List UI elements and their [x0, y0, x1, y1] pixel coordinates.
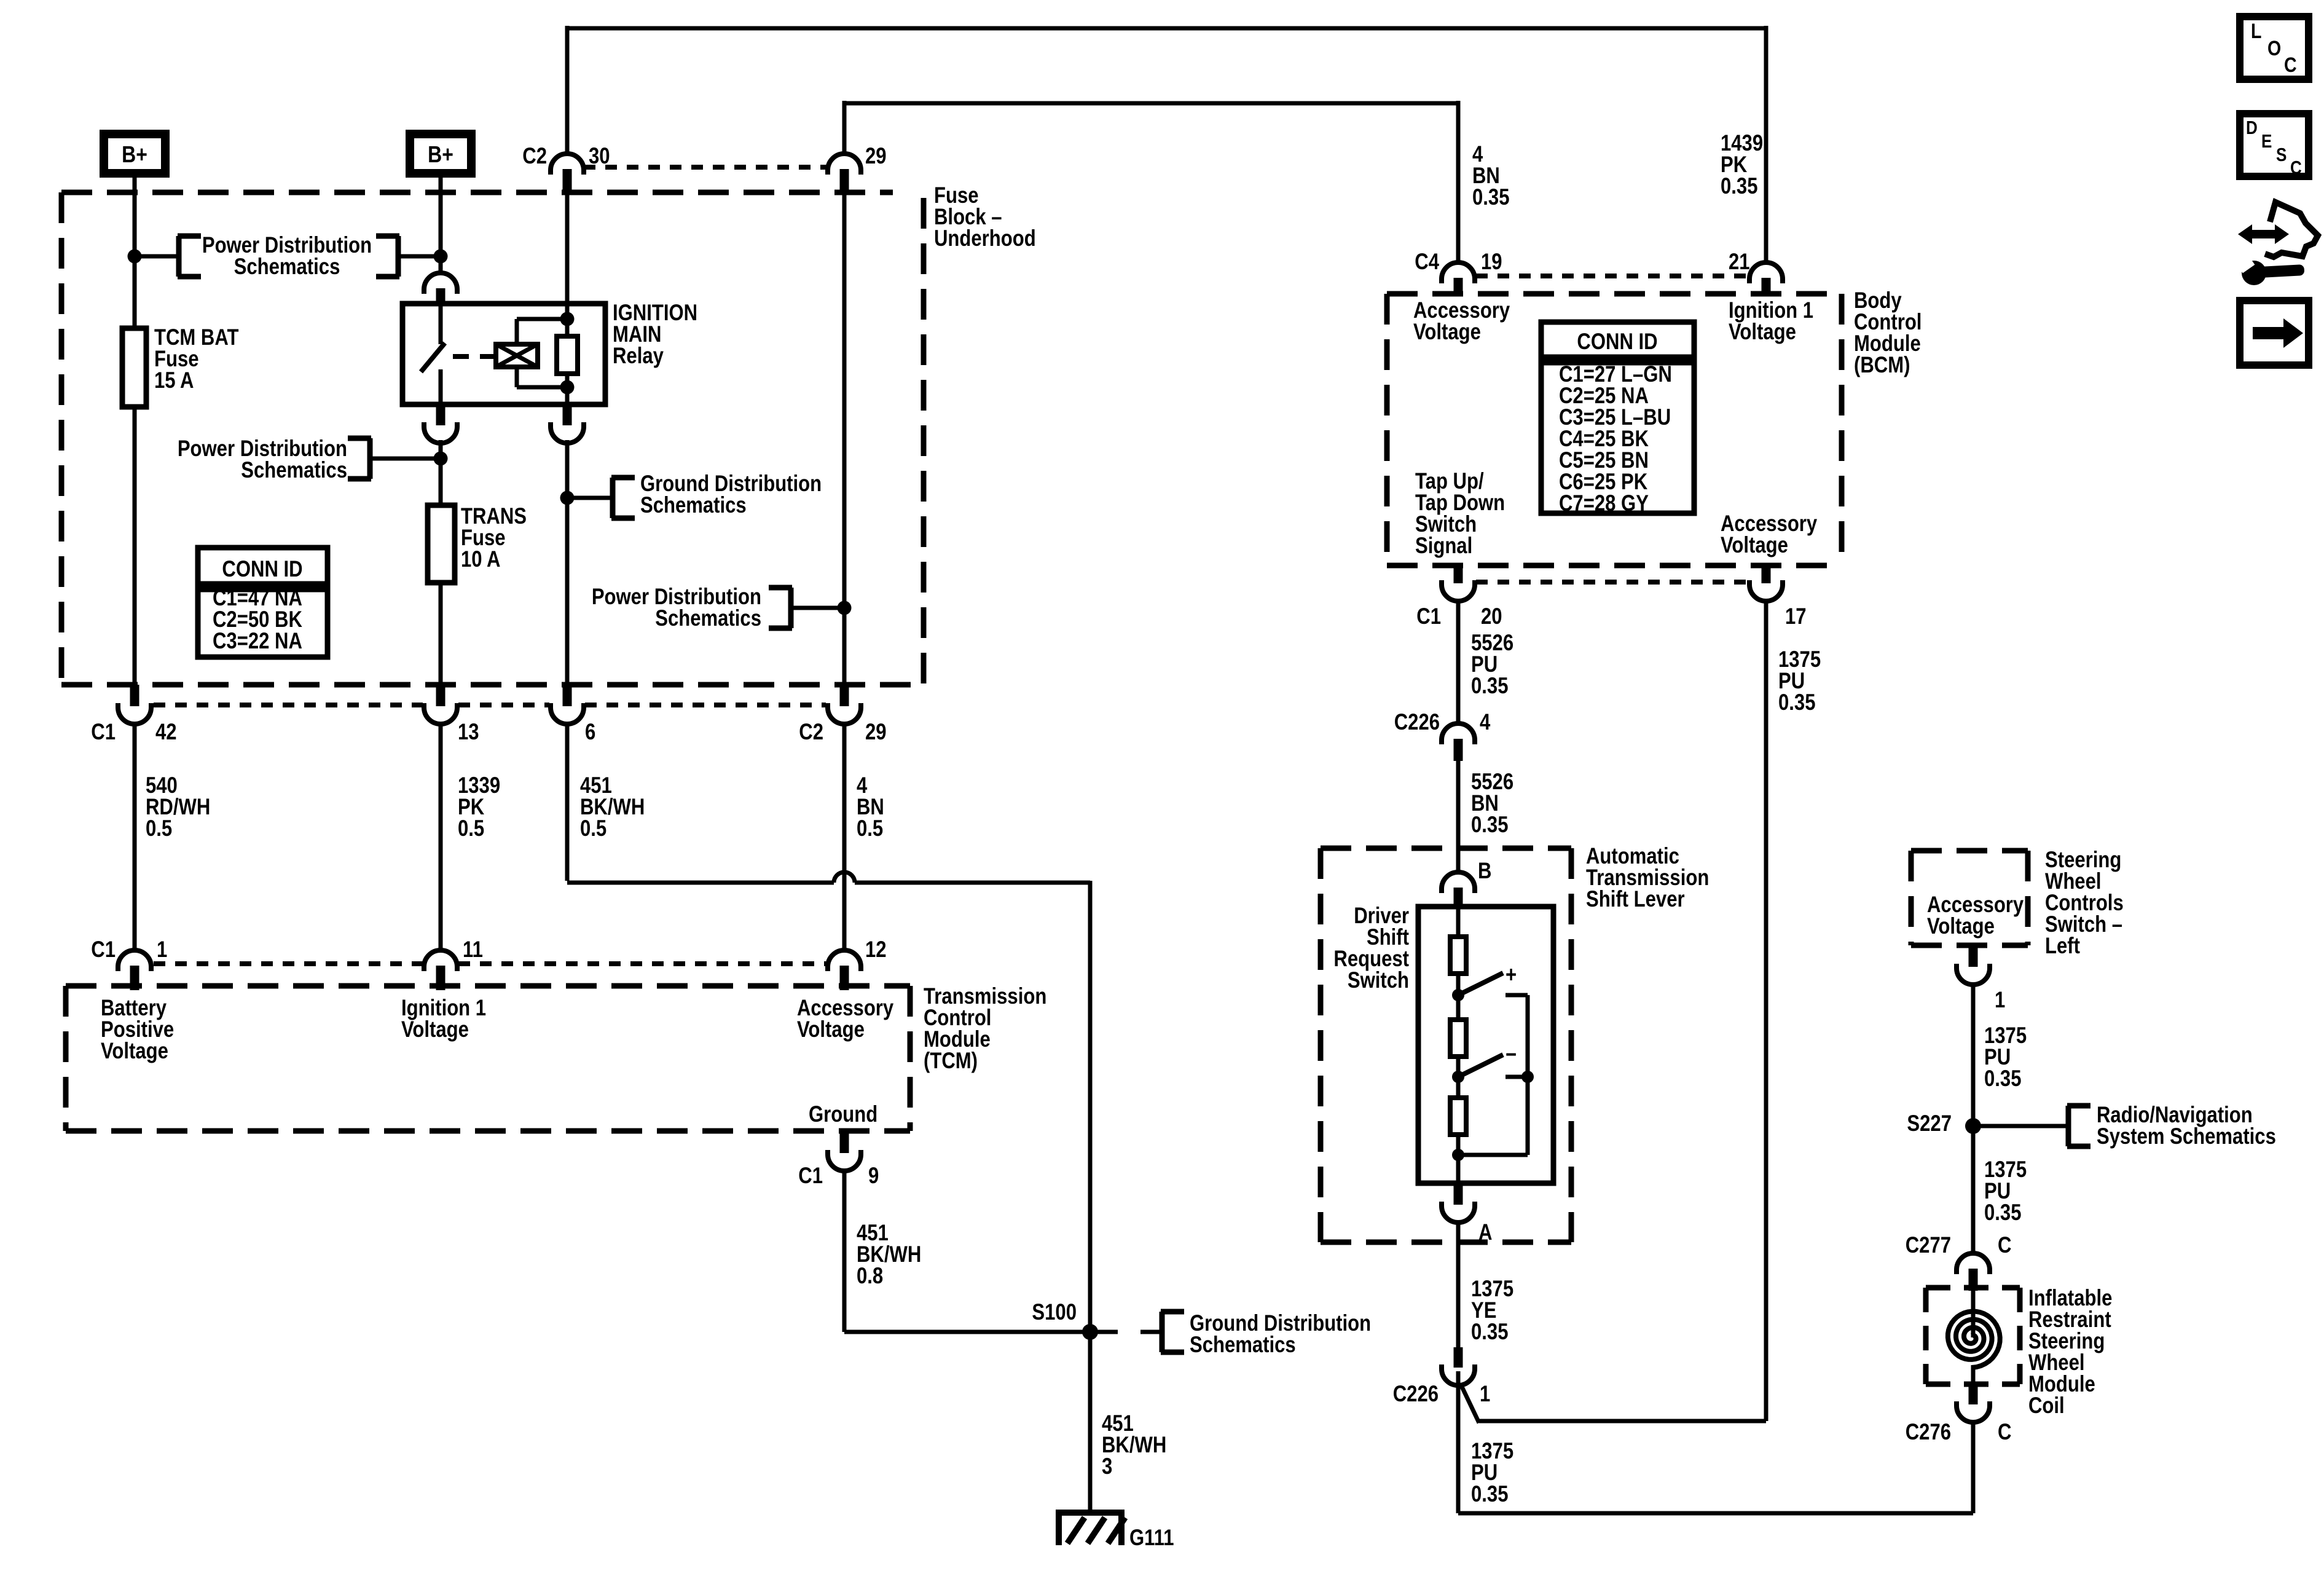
power distribution schematics reference (left mid)	[178, 436, 441, 483]
svg-text:C1: C1	[1416, 604, 1441, 629]
junction S227	[1907, 1111, 1981, 1136]
wire: C226-1 down to coil C276	[1458, 1371, 1973, 1513]
junction dot coil top	[560, 312, 575, 326]
wire label 1375 YE 0.35	[1471, 1277, 1513, 1345]
wire: B+ 1 to TCM BAT fuse	[133, 178, 137, 328]
fuse TRANS 10 A	[428, 504, 527, 583]
svg-text:C: C	[2284, 53, 2297, 77]
junction dot on B+1 wire	[128, 250, 142, 264]
wire label 5526 BN 0.35	[1471, 770, 1513, 838]
svg-text:S: S	[2276, 144, 2287, 166]
connector mate line (BCM top)	[1476, 274, 1748, 278]
wire: 29 to connector C2-29	[842, 192, 847, 686]
connector TCM C1-9	[798, 1131, 879, 1189]
connector 29 (fuse block top)	[828, 144, 887, 194]
wire: TCM BAT fuse to connector C1-42	[133, 407, 137, 686]
svg-text:29: 29	[865, 144, 887, 169]
svg-text:Coil: Coil	[2028, 1393, 2065, 1419]
radio/navigation system schematics reference	[1973, 1103, 2276, 1149]
svg-text:0.35: 0.35	[1471, 1482, 1508, 1507]
svg-text:C4: C4	[1415, 250, 1439, 275]
svg-text:−: −	[1505, 1042, 1517, 1068]
svg-text:C277: C277	[1906, 1233, 1951, 1258]
connector TCM 12	[828, 937, 887, 990]
wire label 1375 PU 0.35 (below C226-1)	[1471, 1439, 1513, 1507]
svg-text:O: O	[2267, 37, 2281, 60]
svg-text:Shift Lever: Shift Lever	[1586, 887, 1685, 912]
svg-text:Schematics: Schematics	[640, 493, 747, 518]
shift lever label	[1586, 844, 1709, 912]
ground distribution schematics reference (S100)	[1090, 1311, 1371, 1358]
relay box IGNITION MAIN	[402, 304, 605, 404]
svg-text:C7=28 GY: C7=28 GY	[1559, 491, 1649, 516]
svg-text:0.35: 0.35	[1471, 1320, 1508, 1345]
svg-text:C2: C2	[522, 144, 547, 169]
wire: 42 to TCM C1-1	[133, 723, 137, 951]
connector shift lever A	[1442, 1183, 1492, 1245]
svg-text:4: 4	[1480, 710, 1490, 735]
svg-text:0.5: 0.5	[146, 816, 172, 841]
wire: 13 to TCM 11	[439, 723, 443, 951]
connector C2-29	[799, 685, 886, 745]
junction S100	[1032, 1300, 1098, 1340]
wire label 1439 PK 0.35	[1721, 131, 1763, 199]
wire label 4 BN 0.35	[1472, 142, 1509, 210]
B+ terminal 1	[104, 134, 165, 173]
svg-text:Voltage: Voltage	[1413, 320, 1481, 345]
switch arm minus	[1458, 1042, 1517, 1077]
svg-text:C2: C2	[799, 720, 823, 745]
svg-text:C3=22 NA: C3=22 NA	[213, 629, 302, 654]
svg-text:(TCM): (TCM)	[924, 1049, 978, 1074]
wire R1 to plus node	[1456, 974, 1461, 995]
svg-text:17: 17	[1785, 604, 1807, 629]
wire R3 to bottom node	[1456, 1135, 1461, 1155]
wire: fuse block C2-30 to BCM pin 21 (top net)	[567, 26, 1766, 264]
wire minus node to R3	[1456, 1077, 1461, 1098]
svg-text:11: 11	[463, 937, 483, 963]
svg-text:G111: G111	[1129, 1526, 1174, 1551]
clockspring spiral	[1948, 1291, 2000, 1385]
svg-text:A: A	[1478, 1220, 1492, 1245]
svg-text:CONN ID: CONN ID	[1577, 329, 1657, 355]
junction dot bottom node	[1452, 1149, 1464, 1161]
ground distribution schematics reference (relay)	[567, 471, 822, 518]
svg-text:Voltage: Voltage	[1927, 914, 1995, 939]
wire: BCM C1-20 to C226-4	[1456, 600, 1461, 725]
wire: TRANS fuse to connector 13	[439, 583, 443, 686]
icon next-page arrow box	[2240, 301, 2309, 365]
connector 13	[424, 685, 479, 745]
svg-text:Voltage: Voltage	[1721, 533, 1788, 558]
svg-text:0.35: 0.35	[1471, 674, 1508, 699]
junction dot power dist 3	[838, 601, 852, 615]
svg-text:Switch: Switch	[1348, 968, 1409, 993]
svg-text:0.35: 0.35	[1984, 1200, 2021, 1226]
driver shift request switch box	[1418, 907, 1553, 1183]
CONN ID table (fuse block)	[198, 548, 328, 657]
wire label 451 BK/WH 3	[1102, 1411, 1166, 1479]
fuse block - underhood dashed box	[61, 192, 924, 685]
resistor R1	[1450, 937, 1466, 974]
wire: B+ 2 to relay	[439, 178, 443, 275]
fuse TCM BAT 15 A	[122, 325, 239, 407]
junction dot coil bottom	[560, 380, 575, 395]
power distribution schematics reference (bottom mid)	[592, 585, 844, 631]
connector mate line (fuse bottom)	[154, 703, 826, 707]
wire label 1375 PU 0.35 (below S227)	[1984, 1157, 2027, 1226]
shift lever dashed box	[1321, 848, 1571, 1242]
power distribution schematics reference (top)	[135, 233, 441, 280]
right branch vertical	[1526, 995, 1530, 1155]
svg-text:0.8: 0.8	[857, 1264, 883, 1289]
wire: C2-30 pin through relay resistor	[565, 192, 570, 404]
svg-text:9: 9	[868, 1164, 879, 1189]
connector C2-30	[522, 144, 610, 194]
connector 6	[551, 685, 595, 745]
svg-text:Left: Left	[2045, 934, 2080, 959]
wire label 451 BK/WH 0.8	[857, 1221, 921, 1289]
svg-text:C1: C1	[798, 1164, 823, 1189]
wire: TCM ground C1-9 to S100	[844, 1170, 1090, 1332]
wire: relay to TRANS fuse	[439, 440, 443, 505]
bottom tie	[1458, 1153, 1528, 1157]
connector mate line (BCM bottom)	[1476, 580, 1748, 585]
svg-text:CONN ID: CONN ID	[222, 557, 302, 582]
wire: 29 to TCM 12	[842, 723, 847, 951]
svg-text:B+: B+	[428, 141, 453, 167]
connector TCM 11	[424, 937, 483, 990]
icon LOC box	[2240, 17, 2309, 79]
TCM pin label accessory voltage	[797, 996, 893, 1042]
svg-text:Voltage: Voltage	[101, 1039, 168, 1064]
TCM pin label ignition 1 voltage	[401, 996, 486, 1042]
svg-text:10 A: 10 A	[461, 547, 500, 572]
junction dot minus node	[1452, 1071, 1464, 1083]
wire plus node to R2	[1456, 995, 1461, 1020]
svg-text:1: 1	[1995, 988, 2005, 1013]
TCM dashed box	[66, 986, 910, 1131]
svg-text:Relay: Relay	[613, 344, 664, 369]
relay resistor	[557, 336, 578, 374]
connector C1-42	[91, 685, 176, 745]
wire: S227 to C277	[1971, 1126, 1976, 1255]
svg-text:21: 21	[1729, 250, 1750, 275]
svg-text:0.35: 0.35	[1472, 185, 1509, 210]
junction dot on B+2 wire	[434, 250, 448, 264]
svg-text:0.5: 0.5	[580, 816, 607, 841]
relay actuation dashed link	[453, 354, 495, 359]
svg-text:Ground: Ground	[809, 1102, 877, 1127]
resistor R3	[1450, 1098, 1466, 1135]
steering wheel controls switch dashed box	[1911, 851, 2028, 945]
svg-text:6: 6	[585, 720, 595, 745]
BCM pin label accessory voltage (top)	[1413, 298, 1510, 345]
wire label 1375 PU 0.35 (BCM 17)	[1778, 647, 1821, 715]
svg-text:0.35: 0.35	[1471, 813, 1508, 838]
connector: relay resistor output	[551, 404, 584, 443]
connector C277	[1906, 1233, 2012, 1291]
svg-text:C226: C226	[1393, 1382, 1439, 1407]
TCM label	[924, 984, 1046, 1074]
BCM dashed box	[1387, 294, 1842, 565]
CONN ID table (BCM)	[1541, 322, 1694, 516]
svg-text:13: 13	[458, 720, 479, 745]
svg-text:1: 1	[157, 937, 167, 963]
B+ terminal 2	[410, 134, 471, 173]
connector: relay coil feed from B+	[424, 273, 457, 305]
connector C226-4	[1394, 710, 1491, 761]
wire label 540 RD/WH 0.5	[146, 773, 210, 841]
wire: 451 crossover to S100 drop	[567, 872, 1090, 1332]
BCM pin label ignition 1 voltage	[1729, 298, 1813, 345]
icon DESC box	[2240, 114, 2309, 179]
svg-text:B+: B+	[122, 141, 147, 167]
svg-text:E: E	[2261, 131, 2272, 152]
svg-text:Signal: Signal	[1415, 534, 1472, 559]
connector mate line (fuse top)	[584, 165, 826, 170]
svg-text:+: +	[1505, 963, 1517, 988]
svg-text:20: 20	[1481, 604, 1502, 629]
svg-text:3: 3	[1102, 1454, 1112, 1479]
svg-text:C: C	[2290, 157, 2302, 179]
svg-text:15 A: 15 A	[154, 368, 194, 393]
icon arrows and wrench	[2237, 202, 2318, 285]
svg-text:C276: C276	[1906, 1420, 1951, 1445]
svg-text:12: 12	[865, 937, 887, 963]
svg-text:C1: C1	[91, 720, 116, 745]
ground G111	[1056, 1513, 1174, 1551]
connector BCM 17	[1749, 565, 1807, 629]
wire label 1339 PK 0.5	[458, 773, 500, 841]
wire: C226-4 to shift lever B	[1456, 761, 1461, 874]
SWC accessory voltage label	[1927, 892, 2024, 939]
wire: BCM 17 down to C226-1	[1461, 600, 1766, 1423]
svg-text:0.5: 0.5	[857, 816, 883, 841]
svg-text:(BCM): (BCM)	[1854, 353, 1910, 378]
connector shift lever B	[1442, 859, 1491, 908]
junction dot plus node	[1452, 989, 1464, 1001]
svg-text:0.5: 0.5	[458, 816, 484, 841]
svg-text:0.35: 0.35	[1778, 690, 1815, 715]
junction dot power dist 2	[434, 452, 448, 466]
svg-text:Schematics: Schematics	[241, 458, 347, 483]
BCM pin label accessory voltage (bottom)	[1721, 511, 1817, 558]
connector BCM 21	[1729, 250, 1783, 296]
junction dot ground dist	[560, 491, 575, 505]
TCM pin label ground	[809, 1102, 877, 1127]
minus contact	[1505, 1075, 1528, 1079]
wire label 1375 PU 0.35 (SWC)	[1984, 1023, 2027, 1092]
wire: SWC to S227	[1971, 983, 1976, 1126]
svg-text:S100: S100	[1032, 1300, 1077, 1325]
wire label 4 BN 0.5	[857, 773, 884, 841]
connector C226-1	[1393, 1347, 1491, 1407]
wire: S100 to G111	[1088, 1332, 1093, 1513]
connector BCM C1-20	[1416, 565, 1502, 629]
BCM pin label tap up/tap down switch signal	[1415, 469, 1505, 559]
wire R2 to minus node	[1456, 1057, 1461, 1077]
svg-text:Voltage: Voltage	[1729, 320, 1796, 345]
fuse block label	[934, 183, 1036, 251]
svg-text:Voltage: Voltage	[401, 1017, 469, 1042]
wire bottom node to A	[1456, 1155, 1461, 1183]
svg-text:D: D	[2246, 117, 2258, 139]
svg-text:0.35: 0.35	[1984, 1066, 2021, 1092]
BCM label	[1854, 288, 1922, 378]
svg-text:29: 29	[865, 720, 887, 745]
wire: fuse block 29 to BCM C4-19 net	[844, 101, 1458, 264]
svg-text:C: C	[1998, 1233, 2011, 1258]
relay coil box with X	[496, 319, 567, 387]
driver shift request switch label	[1333, 904, 1409, 993]
svg-text:System Schematics: System Schematics	[2097, 1124, 2276, 1149]
junction dot right branch	[1521, 1071, 1534, 1083]
connector BCM C4-19	[1415, 250, 1502, 296]
coil label	[2028, 1286, 2112, 1419]
svg-text:S227: S227	[1907, 1111, 1952, 1136]
svg-text:Schematics: Schematics	[1190, 1333, 1296, 1358]
plus contact	[1505, 993, 1528, 998]
wire: relay resistor leg to connector 6	[565, 440, 570, 686]
svg-text:42: 42	[155, 720, 177, 745]
coil dashed box	[1926, 1288, 2020, 1384]
svg-text:L: L	[2251, 20, 2261, 43]
svg-text:Schematics: Schematics	[234, 254, 340, 280]
svg-text:19: 19	[1481, 250, 1502, 275]
switch arm plus	[1458, 963, 1517, 995]
wire label 451 BK/WH 0.5	[580, 773, 645, 841]
svg-text:1: 1	[1480, 1382, 1490, 1407]
relay switch	[421, 304, 445, 404]
svg-text:Voltage: Voltage	[797, 1017, 865, 1042]
connector: relay switch output	[424, 404, 457, 443]
svg-text:B: B	[1478, 859, 1491, 884]
wire label 5526 PU 0.35	[1471, 631, 1513, 699]
resistor R2	[1450, 1020, 1466, 1057]
connector SWC 1	[1957, 945, 2005, 1013]
relay label	[613, 301, 697, 369]
wire: A to C226-1	[1456, 1221, 1461, 1347]
wire: 6 to crossover elbow	[565, 723, 570, 881]
svg-text:Underhood: Underhood	[934, 226, 1036, 251]
TCM pin label battery positive voltage	[101, 996, 174, 1064]
connector TCM C1-1	[91, 937, 167, 990]
svg-text:C1: C1	[91, 937, 116, 963]
connector mate line (TCM top)	[154, 961, 826, 966]
svg-text:0.35: 0.35	[1721, 174, 1757, 199]
shift switch wire top	[1456, 908, 1461, 937]
svg-text:C: C	[1998, 1420, 2011, 1445]
svg-text:C226: C226	[1394, 710, 1440, 735]
SWC switch label	[2045, 848, 2124, 959]
svg-text:Schematics: Schematics	[655, 606, 761, 631]
connector C276	[1906, 1384, 2012, 1445]
